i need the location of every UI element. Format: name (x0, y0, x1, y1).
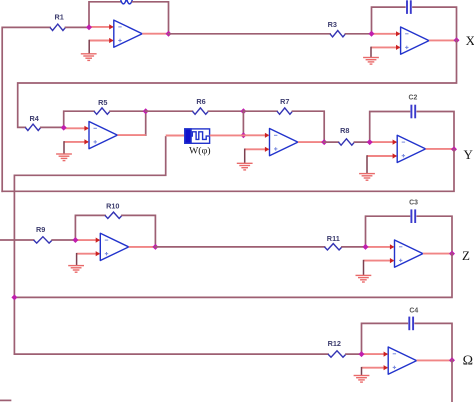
ground U5 (359, 174, 375, 181)
wire C2 to Y node (417, 112, 454, 150)
node U4 output (321, 139, 327, 145)
svg-text:R1: R1 (55, 13, 64, 22)
svg-text:R9: R9 (36, 225, 45, 234)
wire R8 to U5 input node (355, 141, 370, 143)
resistor R3 (330, 31, 346, 37)
pin U5 inverting input with arrowhead (370, 140, 397, 145)
wire U3 feedback loop with R5 leads (64, 111, 94, 127)
wire U8 + input to ground (361, 368, 363, 376)
node Z output (449, 251, 455, 257)
wire R12 to U8 input node (346, 353, 362, 355)
wire memristor to U4 input node (210, 134, 244, 136)
pin U4 output (298, 141, 324, 143)
pin U2 output (429, 39, 457, 41)
wire U1 output node to R3 (169, 33, 331, 35)
pin U8 inverting input with arrowhead (362, 352, 388, 357)
pin U8 output (417, 359, 452, 361)
node U3 input (61, 125, 67, 131)
wire C1b to X node (413, 7, 457, 40)
svg-text:R5: R5 (98, 98, 107, 107)
wire X output down and across to R4 (row2 input) (18, 40, 457, 127)
wire R9 to U6 input node (52, 239, 75, 241)
pin U2 inverting input with arrowhead (372, 31, 401, 36)
wire C4 feedback loop riser (362, 323, 408, 354)
op-amp U8 (388, 347, 416, 374)
ground U2 (363, 58, 379, 65)
wire U1 + input to ground (88, 41, 90, 54)
wire Y output down and across to left riser (2, 149, 454, 191)
op-amp U3 (89, 122, 117, 149)
op-amp U7 (395, 240, 423, 267)
pin U6 output (129, 246, 156, 248)
svg-text:R10: R10 (106, 201, 119, 210)
wire U1 feedback loop riser and top run to output node (89, 2, 121, 28)
node U1 input (86, 24, 92, 30)
pin U1 non-inverting input with arrowhead (89, 38, 113, 43)
wire row4 input from riser corner to R12 (14, 353, 328, 355)
op-amp U1 (114, 20, 142, 47)
node X output (454, 37, 460, 43)
wire Z output down and across to memristor riser (14, 254, 452, 298)
op-amp U2 (401, 27, 429, 54)
svg-text:Z: Z (462, 248, 470, 263)
svg-text:C4: C4 (409, 308, 418, 315)
pin U3 non-inverting input with arrowhead (64, 139, 89, 144)
memristor W1 body (185, 129, 210, 143)
node U1 output (166, 31, 172, 37)
svg-text:Y: Y (464, 147, 474, 162)
pin U6 inverting input with arrowhead (75, 238, 100, 243)
wire C2 feedback loop riser (370, 112, 410, 143)
svg-text:C3: C3 (409, 200, 418, 207)
wire R6 to R7 junction node (208, 110, 243, 112)
capacitor C2 (411, 105, 415, 119)
svg-text:W(φ): W(φ) (189, 146, 211, 157)
node R5/R6 junction (143, 108, 149, 114)
wire U6 output node to R11 (155, 246, 324, 248)
node U7 input (363, 244, 369, 250)
wire R10 feedback loop left riser (75, 215, 105, 240)
wire junction down to U4 inverting input node (242, 111, 244, 135)
resistor R4 (25, 124, 41, 130)
node Omega output (449, 357, 455, 363)
pin U6 non-inverting input with arrowhead (77, 251, 100, 256)
capacitor C1 (cut off at top edge) (121, 0, 133, 4)
svg-text:R6: R6 (196, 97, 205, 106)
wire R10 to U6 output node (122, 215, 155, 247)
wire row1 input from left edge (Y feedback riser) to R1 (2, 27, 50, 191)
node U2 input (369, 31, 375, 37)
node U4 input / memristor output (240, 132, 246, 138)
svg-text:R8: R8 (340, 126, 349, 135)
pin U4 non-inverting input with arrowhead (245, 147, 270, 152)
wire C1 to U1 output node (133, 2, 169, 34)
ground U3 (56, 154, 72, 161)
wire R1 to input node (66, 26, 90, 28)
wire C4 to Omega node (415, 323, 452, 360)
wire U3 + input to ground (63, 142, 65, 154)
wire R4 to U3 input node (41, 126, 64, 128)
node Z feedback / memristor riser junction (11, 294, 17, 300)
pin U7 non-inverting input with arrowhead (364, 258, 395, 263)
wire row3 input from left edge to R9 (0, 239, 34, 241)
resistor R7 (277, 108, 293, 114)
wire memristor input from Z riser (14, 137, 165, 354)
capacitor C2a (row1 integrator feedback) (407, 0, 411, 14)
op-amp U5 (397, 135, 425, 162)
pin U1 inverting input with arrowhead (89, 24, 114, 29)
resistor R5 (94, 108, 110, 114)
wire U2 + input to ground (370, 47, 372, 57)
pin U1 output (142, 33, 168, 35)
resistor R8 (338, 139, 354, 145)
capacitor C3 (411, 209, 415, 223)
svg-text:R11: R11 (327, 234, 340, 243)
wire Omega output continuing off bottom edge (451, 360, 453, 402)
op-amp U6 (100, 233, 128, 260)
ground U7 (356, 275, 372, 282)
resistor R6 (192, 108, 208, 114)
resistor R12 (328, 351, 346, 357)
ground U1 (81, 54, 97, 61)
svg-text:R3: R3 (328, 20, 337, 29)
wire U4 output node to R8 (324, 141, 338, 143)
wire stub at bottom-left edge (cut off) (0, 399, 11, 401)
wire U6 + input to ground (76, 254, 78, 266)
wire R3 to U2 input node (346, 33, 372, 35)
resistor R10 (105, 212, 122, 218)
wire C3 to Z node (417, 216, 452, 253)
wire U4 + input to ground (244, 149, 246, 163)
resistor R11 (325, 244, 343, 250)
node U6 output (152, 244, 158, 250)
wire U7 + input to ground (363, 261, 365, 276)
wire R5 to node then down to U3 output (110, 111, 146, 135)
resistor R1 (50, 24, 66, 30)
wire U5 + input to ground (366, 156, 368, 173)
ground U8 (354, 376, 370, 383)
svg-text:X: X (466, 33, 474, 48)
svg-text:R12: R12 (328, 339, 341, 348)
wire R7 to U4 output node (293, 111, 325, 142)
wire R7 feedback from junction over U4 (243, 110, 277, 112)
node U6 input (72, 237, 78, 243)
node R6/R7 junction (240, 108, 246, 114)
capacitor C4 (409, 317, 413, 331)
pin U7 inverting input with arrowhead (366, 244, 395, 249)
pin U5 output (426, 148, 454, 150)
pin U8 non-inverting input with arrowhead (362, 365, 388, 370)
node Y output (451, 146, 457, 152)
node U8 input (359, 351, 365, 357)
pin U5 non-inverting input with arrowhead (367, 153, 397, 158)
wire node to R6 (146, 110, 193, 112)
wire U2 feedback loop riser to C1b (372, 7, 405, 34)
svg-text:Ω: Ω (463, 354, 473, 369)
op-amp U4 (270, 129, 298, 156)
pin U3 inverting input with arrowhead (64, 126, 89, 131)
ground U6 (68, 266, 84, 273)
svg-text:C2: C2 (408, 95, 417, 102)
resistor R9 (34, 237, 53, 243)
pin U2 non-inverting input with arrowhead (371, 45, 400, 50)
wire R11 to U7 input node (342, 246, 366, 248)
svg-text:R7: R7 (280, 97, 289, 106)
pin memristor left lead (166, 135, 185, 137)
pin U4 inverting input with arrowhead (243, 133, 269, 138)
pin U7 output (423, 253, 452, 255)
svg-text:R4: R4 (30, 114, 40, 123)
pin U3 output (117, 134, 145, 136)
ground U4 (237, 163, 253, 170)
node U5 input (367, 139, 373, 145)
wire C3 feedback loop riser (366, 216, 410, 247)
